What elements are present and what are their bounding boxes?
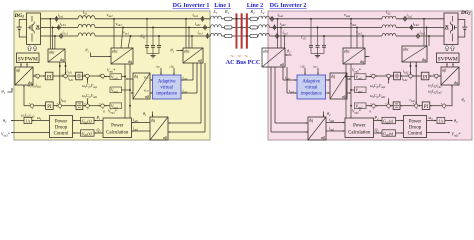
svg-text:Voq1: Voq1: [111, 88, 118, 94]
svg-text:dq: dq: [128, 59, 132, 64]
node v_o2 tap b: [350, 21, 358, 48]
omega1 wire to integrator: [32, 115, 50, 121]
svg-text:iLc2: iLc2: [420, 30, 426, 36]
summing node S7R q-axis DG2: [385, 103, 390, 111]
io alphabeta feed 1 DG2: [275, 67, 308, 124]
svg-text:DG Inverter 2: DG Inverter 2: [270, 3, 307, 9]
svg-text:1/s: 1/s: [439, 119, 444, 123]
summing node S2R current d-loop DG2: [407, 73, 412, 81]
node v_o tap a: [107, 12, 115, 48]
ground symbol DG2 filter: [315, 56, 320, 58]
svg-text:iLc1: iLc1: [62, 30, 68, 36]
filter inductor L_f1 label: [82, 10, 88, 16]
svg-text:PI: PI: [424, 105, 429, 110]
i_oq2 into power calc 2: [326, 127, 345, 132]
wire dqab outputs to bus 2: [347, 78, 351, 94]
wire PI1R to S2R: [412, 75, 421, 77]
gate drive arrow 3: [445, 46, 449, 51]
svg-text:abc: abc: [344, 49, 350, 54]
svg-text:PI: PI: [47, 105, 52, 110]
svg-text:1/s: 1/s: [26, 119, 31, 123]
svg-text:dq: dq: [422, 57, 426, 62]
svg-text:iLb1: iLb1: [60, 21, 66, 27]
Q2 wire to filter: [374, 127, 382, 133]
adaptive virtual impedance block DG1: [153, 75, 182, 99]
current sensor i_oa2: [271, 12, 284, 22]
svg-text:ioc1: ioc1: [198, 29, 204, 35]
current sensor i_Lb1: [57, 21, 66, 30]
wire GdP to droop: [73, 120, 81, 122]
PI controller voltage q-axis DG2: [422, 102, 430, 110]
AC bus bar b: [241, 14, 243, 49]
transform block dq/alphabeta modulation DG2: [441, 67, 459, 85]
i_od1 into AVI1: [181, 63, 193, 81]
node iL2 tap b: [426, 26, 428, 46]
Vod2 reference output: [427, 131, 461, 137]
transform block dq/alphabeta modulation DG1: [15, 67, 33, 85]
current sensor i_La1: [55, 12, 64, 21]
AC bus bar a: [236, 14, 238, 49]
transform block abc/dq voltages DG2: [343, 48, 365, 64]
svg-text:iLq2: iLq2: [410, 98, 416, 103]
decoupling label row2 DG2: [428, 89, 442, 94]
svg-text:PI: PI: [47, 76, 52, 81]
wire Vod2 box to S4R: [366, 76, 371, 78]
svg-text:ioa2: ioa2: [278, 12, 284, 18]
svg-text:abc: abc: [263, 48, 269, 53]
svg-text:Vod2*: Vod2*: [352, 68, 361, 74]
wire GdQ2 to droop: [396, 132, 404, 134]
svg-text:θ1: θ1: [171, 48, 175, 54]
svg-text:ω2Lf2iLd2: ω2Lf2iLd2: [428, 89, 442, 94]
wire PI1 to S2: [53, 75, 64, 77]
svg-text:Gd1(s): Gd1(s): [82, 131, 93, 137]
svg-text:vob1: vob1: [116, 21, 123, 27]
transform block abc/alphabeta DG1: [183, 48, 203, 63]
bus junction b: [241, 27, 243, 29]
wire dqab outputs to bus: [126, 78, 133, 94]
svg-text:↓Q1: ↓Q1: [169, 64, 174, 68]
svg-text:Voq2*: Voq2*: [352, 108, 361, 114]
summing node S3R d-axis DG2: [385, 73, 390, 81]
svg-text:PI: PI: [423, 76, 428, 81]
transform block abc/dq currents DG2: [402, 46, 427, 62]
svg-text:voc2: voc2: [356, 29, 363, 35]
SVPWM block DG2: [437, 53, 460, 63]
omega2 wire to integrator: [427, 115, 437, 121]
SVPWM block DG1: [17, 53, 40, 63]
svg-text:0: 0: [103, 110, 105, 114]
svg-text:ω2Lf2iLq2: ω2Lf2iLq2: [428, 83, 442, 88]
heading DG Inverter 2: [270, 3, 307, 9]
line 2 inductor phase a: [258, 16, 270, 19]
gain block q-axis: [76, 102, 83, 110]
transform block abc/dq voltages DG1: [111, 48, 133, 64]
wire PI1R input: [429, 75, 435, 77]
inductor L_f1 phase b: [78, 24, 95, 27]
svg-text:dq: dq: [360, 59, 364, 64]
summing node S8 q-axis: [99, 103, 104, 111]
line 2 resistor phase a: [250, 17, 258, 20]
svg-text:dq: dq: [309, 117, 313, 122]
line 2 inductor phase b: [258, 25, 270, 28]
theta1 into power transform: [143, 111, 153, 117]
current sensor i_La2: [404, 12, 413, 21]
omega2 input to AVI2: [313, 64, 319, 74]
wire S7 to S8: [89, 105, 100, 107]
svg-text:ioa1: ioa1: [193, 12, 199, 18]
power droop control block DG2: [404, 116, 427, 138]
svg-text:θ2: θ2: [327, 111, 331, 117]
svg-text:Cf2: Cf2: [301, 34, 306, 40]
svg-text:αβ: αβ: [163, 135, 167, 140]
wire L1-R1: [222, 19, 225, 36]
current sensor i_Lb2: [410, 21, 419, 30]
line 2 resistor phase b: [250, 26, 258, 29]
gain block d-axis DG2: [394, 72, 401, 80]
svg-text:abc: abc: [49, 49, 55, 54]
svg-text:Power: Power: [55, 119, 68, 124]
svg-text:iLa1: iLa1: [58, 12, 64, 18]
DG inverter 1 panel (yellow): [14, 11, 210, 140]
node iL2 tap a: [423, 18, 425, 46]
IGBT switch Q2a with antiparallel diode: [445, 22, 457, 34]
zero reference at S8R: [370, 110, 372, 114]
decoupling label row2: [21, 114, 35, 119]
heading DG Inverter 1: [173, 3, 210, 9]
svg-text:Lf1: Lf1: [82, 10, 88, 16]
AC Bus PCC label: [226, 59, 261, 66]
svg-text:Vod1*: Vod1*: [1, 131, 10, 137]
svg-text:Gd2(s): Gd2(s): [383, 118, 394, 124]
svg-text:θ1: θ1: [143, 111, 147, 117]
line 2 inductance L2 label: [260, 9, 265, 15]
arrows dq-ab to SVPWM 2: [446, 63, 454, 67]
svg-text:θ2: θ2: [462, 97, 466, 103]
svg-text:AC Bus PCC: AC Bus PCC: [226, 59, 261, 66]
phase c rail DG1: [41, 35, 211, 37]
adaptive virtual impedance block DG2: [297, 75, 326, 99]
i_od1 into power calc: [132, 118, 150, 123]
transform block dq/alphabeta power DG1: [150, 117, 168, 140]
svg-text:ω2Cf2Vod2: ω2Cf2Vod2: [370, 94, 386, 99]
PI controller voltage q-axis: [46, 102, 54, 110]
wire S2R to gain: [400, 75, 408, 81]
zero reference at S8: [103, 110, 105, 114]
reference box V_oq2 mid: [355, 87, 367, 93]
gate drive arrow 4: [451, 46, 455, 51]
svg-text:θ1: θ1: [2, 89, 6, 95]
line 1 resistor phase c: [225, 34, 233, 37]
svg-text:dq: dq: [60, 57, 64, 62]
svg-text:iLd1: iLd1: [68, 77, 74, 82]
inductor L_f1 phase a: [78, 16, 95, 19]
phase a rail DG1: [41, 18, 211, 20]
gain block q-axis DG2: [393, 102, 400, 110]
wire S3R to S4R: [375, 75, 386, 77]
svg-text:abc: abc: [184, 48, 190, 53]
capacitor C_f2 phase c: [322, 35, 326, 53]
svg-text:dq: dq: [151, 117, 155, 122]
summing node S2 current d-loop: [62, 73, 67, 81]
phase c rail DG2: [270, 35, 445, 37]
wire S1R to ab/dq block 2: [438, 75, 441, 77]
svg-text:ioq1: ioq1: [183, 89, 189, 94]
Q1 input to AVI1: [169, 64, 175, 74]
low pass filter Gd(s) for P2: [382, 117, 396, 124]
svg-text:SVPWM: SVPWM: [438, 56, 458, 62]
current sensor i_Lc2: [417, 30, 426, 39]
node io tap a: [185, 18, 187, 48]
svg-text:iLa2: iLa2: [407, 12, 413, 18]
svg-text:0: 0: [370, 110, 372, 114]
feedback i_Ld1 into S2: [65, 62, 73, 74]
summing node S6 current q-loop: [56, 103, 61, 111]
feedback i_Lq2 into S6R: [410, 62, 418, 104]
wire PI2R to S6R: [418, 105, 422, 107]
line 1 inductor phase b: [211, 25, 222, 28]
line 1 resistance R1 label: [224, 9, 230, 15]
node iL2 tap c: [428, 35, 430, 46]
bridge 1 internal wires: [31, 16, 33, 42]
line 1 inductor phase c: [211, 33, 222, 36]
svg-text:Control: Control: [408, 131, 423, 136]
svg-text:iLd2: iLd2: [403, 70, 409, 75]
svg-text:iod1: iod1: [133, 118, 139, 123]
svg-text:virtual: virtual: [305, 86, 318, 91]
low pass filter Gd(s) for P1: [81, 117, 95, 124]
node io tap b: [188, 26, 190, 48]
theta2 output: [445, 118, 458, 124]
IGBT switch Q1a with antiparallel diode: [28, 22, 40, 34]
transform block dq/alphabeta power DG2: [308, 117, 326, 140]
summing node S1 voltage d-loop: [34, 73, 39, 81]
bus junction c: [246, 35, 248, 37]
svg-text:iod1: iod1: [183, 76, 189, 81]
line 1 inductor phase a: [211, 16, 222, 19]
svg-text:ioc2: ioc2: [283, 29, 289, 35]
feedback i_Ld2 into S2R: [403, 62, 411, 74]
svg-text:dq: dq: [134, 73, 138, 78]
svg-text:Q2: Q2: [375, 127, 380, 133]
summing node S3 d-axis: [84, 73, 89, 81]
svg-text:Adaptive: Adaptive: [302, 80, 320, 85]
phase b rail DG1: [41, 26, 211, 28]
wire alphabeta-dq to S5: [23, 85, 30, 105]
theta2 input to abc/alphabeta DG2: [285, 49, 291, 56]
svg-text:iod2: iod2: [329, 118, 335, 123]
node io2 tap b: [280, 26, 282, 48]
DC source V_dc1 battery: [17, 20, 27, 38]
wire S2 to gain: [67, 75, 75, 81]
svg-text:P2: P2: [374, 115, 379, 121]
summing node S1R voltage d-loop DG2: [433, 73, 438, 81]
node v_o2 tap a: [344, 12, 352, 48]
svg-text:dq: dq: [331, 73, 335, 78]
svg-text:Power: Power: [111, 123, 124, 128]
inductor L_f2 phase b: [382, 25, 396, 28]
svg-text:voa1: voa1: [107, 12, 114, 18]
PI controller voltage d-axis: [45, 72, 53, 80]
transform block dq/alphabeta virtual impedance DG1: [133, 73, 150, 99]
svg-text:Lf2: Lf2: [385, 10, 391, 16]
wire S6 to gain q: [62, 105, 76, 107]
node io tap c: [191, 35, 193, 48]
AC bus bar c: [246, 14, 248, 49]
svg-text:DG1: DG1: [14, 13, 25, 19]
wire PI1 input: [40, 75, 46, 77]
capacitor C_f2 phase a: [309, 18, 313, 54]
svg-text:Adaptive: Adaptive: [158, 80, 176, 85]
wire S1 to ab/dq block: [33, 75, 36, 77]
reference box V_oq1 mid: [110, 87, 122, 93]
svg-text:θ2: θ2: [454, 118, 458, 124]
DC source V_dc2 battery: [458, 20, 467, 38]
svg-text:R1: R1: [224, 9, 230, 15]
integrator 1/s DG1: [24, 117, 32, 123]
wire S5 to PI2: [34, 105, 46, 107]
wire R1 to bus: [232, 19, 250, 36]
summing node S5 voltage q-loop: [29, 103, 34, 111]
svg-text:αβ: αβ: [16, 67, 20, 72]
summing node S7 q-axis: [84, 103, 89, 111]
theta1 output: [3, 118, 24, 124]
wire gain to S3R: [391, 75, 394, 77]
svg-text:Vod2: Vod2: [356, 74, 363, 80]
capacitor C_f1 phase a: [145, 18, 149, 54]
wire S7R to S8R: [375, 105, 386, 107]
svg-text:L2: L2: [260, 9, 265, 15]
capacitor C_f1 phase c: [157, 35, 161, 53]
transform block abc/alphabeta DG2: [262, 48, 285, 67]
svg-text:iob2: iob2: [280, 21, 286, 27]
filter capacitor bank C_f2 label: [301, 34, 306, 40]
svg-text:ω1Cf1Voq1: ω1Cf1Voq1: [82, 84, 98, 89]
summing node S4R d-axis DG2: [370, 73, 375, 81]
svg-text:Vod2*: Vod2*: [452, 131, 461, 137]
bus junction a: [236, 18, 238, 20]
svg-text:abc: abc: [403, 46, 409, 51]
svg-text:Voq1*: Voq1*: [108, 108, 117, 114]
svg-text:Calculation: Calculation: [106, 130, 129, 135]
transform block abc/dq currents DG1: [48, 49, 65, 62]
current sensor i_oc1: [198, 29, 210, 39]
i_od2 into AVI2: [283, 67, 297, 81]
low pass filter Gd(s) for Q2: [382, 130, 396, 137]
line 1 resistor phase a: [225, 17, 233, 20]
theta1 into modulation block: [2, 88, 13, 95]
bus V_oq2 vertical: [350, 64, 354, 118]
decoupling label row1: [28, 83, 42, 88]
svg-text:Q1: Q1: [97, 127, 102, 133]
svg-text:Voq2: Voq2: [356, 88, 363, 94]
bus V_od1 vertical: [122, 64, 126, 118]
filter capacitor bank C_f1 label: [141, 33, 146, 39]
svg-text:P1: P1: [96, 115, 101, 121]
theta1 arrow into abc/dq voltages: [86, 49, 111, 58]
phase b rail DG2: [270, 26, 445, 28]
DG2 label: [460, 10, 471, 16]
summing node S4 d-axis: [99, 73, 104, 81]
current sensor i_ob1: [195, 21, 207, 31]
current sensor i_Lc1: [60, 30, 69, 39]
decoupling label row1 DG2: [428, 83, 442, 88]
svg-text:iLd1: iLd1: [67, 70, 73, 75]
svg-text:iLb2: iLb2: [413, 21, 419, 27]
DG inverter 2 panel (pink): [268, 11, 472, 140]
wire S5R to PI2R: [430, 105, 442, 107]
wire PI2 to S6: [53, 105, 58, 107]
inductor L_f1 phase c: [78, 33, 95, 36]
svg-text:dq: dq: [454, 80, 458, 85]
summing node S5R voltage q-loop DG2: [441, 103, 446, 111]
svg-text:αβ: αβ: [342, 94, 346, 99]
node v_o tap b: [116, 21, 124, 48]
cross term wC_f V_oq1 into S3: [82, 78, 98, 89]
svg-text:Calculation: Calculation: [348, 130, 371, 135]
svg-text:iLq1: iLq1: [61, 98, 67, 103]
svg-text:Vod1*: Vod1*: [107, 69, 115, 74]
svg-text:Line 1: Line 1: [214, 3, 230, 9]
current sensor i_ob2: [273, 21, 286, 31]
svg-text:Cf1: Cf1: [141, 33, 146, 39]
i_oq1 into AVI1: [181, 63, 197, 94]
io alphabeta feed 2: [168, 63, 205, 133]
svg-text:L1: L1: [213, 9, 218, 15]
svg-text:Droop: Droop: [55, 125, 68, 130]
phase a rail DG2: [270, 18, 445, 20]
svg-text:voa2: voa2: [344, 12, 351, 18]
bus V_oq1 vertical: [122, 64, 131, 118]
svg-text:Control: Control: [54, 131, 69, 136]
svg-text:R2: R2: [250, 9, 256, 15]
svg-text:SVPWM: SVPWM: [18, 56, 38, 62]
wire gain to S7R: [390, 105, 393, 107]
svg-text:|ω1: |ω1: [156, 64, 160, 68]
wire Voq1 box to S8: [104, 105, 110, 107]
wire Voq1 stub: [124, 105, 126, 107]
inverter bridge 1 box: [27, 13, 41, 45]
cross term wC_f V_oq2 into S3R: [370, 78, 389, 89]
io alphabeta feed 2 DG2: [271, 67, 308, 133]
i_oq1 into power calc: [132, 127, 150, 132]
filter inductor L_f2 label: [385, 10, 391, 16]
svg-text:αβ: αβ: [321, 135, 325, 140]
wire S6R to gain q: [400, 105, 414, 107]
svg-text:abc: abc: [112, 49, 118, 54]
ground symbol DG1 filter: [150, 56, 155, 58]
cross term wC_f V_od2 into S7R: [370, 94, 389, 104]
svg-text:vob2: vob2: [350, 21, 357, 27]
inverter bridge 2 box: [444, 13, 458, 45]
line 2 resistance R2 label: [250, 9, 256, 15]
wire gain to S3: [82, 75, 85, 77]
wire gain to S7: [83, 105, 86, 107]
svg-text:αβ: αβ: [198, 58, 202, 63]
node iL tap a: [49, 18, 51, 49]
capacitor C_f2 common node: [311, 54, 324, 56]
theta2 into power transform 2: [323, 111, 331, 117]
P1 wire to filter: [94, 115, 103, 121]
node iL tap c: [54, 35, 56, 49]
svg-text:Gd1(s): Gd1(s): [82, 118, 93, 124]
reference box V_od1: [107, 69, 122, 80]
current sensor i_oc2: [276, 29, 289, 39]
svg-text:ω2: ω2: [429, 115, 434, 121]
svg-text:ω2Cf2Voq2: ω2Cf2Voq2: [370, 84, 386, 89]
reference box V_oq2 low: [352, 103, 366, 114]
wire Vod1 box to S4: [105, 76, 110, 78]
